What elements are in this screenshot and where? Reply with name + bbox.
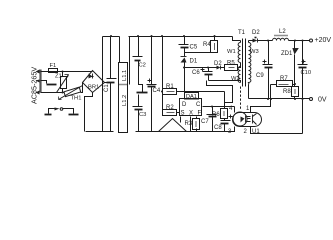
wire C pin to opto [203, 106, 235, 108]
wire x162 [162, 37, 164, 113]
capacitor C9 electrolytic [268, 41, 270, 65]
svg-text:W2: W2 [231, 76, 240, 82]
plug symbol [49, 109, 55, 114]
capacitor C10 [302, 41, 304, 65]
wire bridge bottom to ground rail [85, 93, 93, 132]
wire opto pin1 to R7 [251, 85, 271, 113]
resistor R1 [163, 89, 177, 95]
wire to bridge top [57, 71, 93, 73]
svg-text:R3: R3 [185, 121, 193, 127]
svg-text:L2: L2 [279, 29, 286, 35]
transformer core [243, 39, 246, 87]
opto pin stubs [234, 107, 236, 113]
svg-text:1: 1 [246, 106, 250, 112]
svg-text:2: 2 [244, 129, 248, 135]
isolation dashed line [240, 87, 242, 111]
snubber capacitor C5 [184, 37, 186, 45]
svg-text:C7: C7 [201, 119, 209, 125]
terminal +20V [310, 39, 313, 42]
capacitor C7 [212, 107, 214, 115]
svg-text:+20V: +20V [315, 37, 332, 44]
wire W2 return [209, 81, 241, 83]
svg-text:D2: D2 [214, 61, 222, 67]
wire L input arrow [41, 71, 49, 73]
0V bus [249, 98, 310, 100]
winding W1 [240, 41, 242, 43]
svg-text:R4: R4 [203, 42, 211, 48]
svg-text:R8: R8 [283, 89, 291, 95]
secondary return wire [248, 85, 250, 99]
diode D2 primary [217, 66, 221, 70]
svg-text:C3: C3 [139, 112, 146, 118]
secondary top wire [249, 40, 253, 42]
svg-text:ZD1: ZD1 [281, 51, 293, 57]
wire bridge right output [105, 82, 111, 84]
svg-text:C8: C8 [214, 125, 222, 131]
wire X pin [190, 117, 192, 132]
zener ZD1 [294, 41, 296, 49]
svg-text:U1: U1 [252, 129, 260, 135]
choke L1 box [119, 37, 121, 63]
resistor R3 [196, 117, 198, 119]
svg-text:D: D [182, 102, 187, 108]
capacitor C8 electrolytic [224, 119, 226, 121]
resistor R6 [221, 109, 228, 119]
resistor R8 [292, 87, 299, 97]
svg-text:C9: C9 [256, 73, 264, 79]
svg-text:R2: R2 [166, 105, 174, 111]
snubber diode D1 [184, 48, 186, 57]
capacitor C3 [138, 95, 140, 107]
wire vertical x103 [102, 37, 104, 132]
svg-text:C10: C10 [301, 70, 312, 76]
primary ground rail [86, 131, 114, 133]
optocoupler U1 [233, 113, 262, 127]
svg-text:L1.1: L1.1 [122, 70, 128, 81]
svg-text:F: F [198, 111, 202, 117]
resistor R2 [162, 112, 164, 114]
capacitor C2 [138, 37, 140, 57]
svg-text:C6: C6 [192, 70, 200, 76]
svg-text:C1: C1 [104, 84, 110, 92]
wire N input arrow [41, 81, 47, 84]
terminal 0V [310, 98, 313, 101]
svg-text:R5: R5 [227, 61, 235, 67]
svg-text:T1: T1 [238, 30, 246, 36]
svg-text:W1: W1 [227, 49, 236, 55]
svg-text:R1: R1 [166, 84, 174, 90]
svg-text:TH1: TH1 [71, 96, 82, 102]
winding W2 [238, 67, 240, 83]
fuse F1 [49, 69, 58, 73]
svg-text:C2: C2 [139, 63, 146, 69]
svg-text:C4: C4 [153, 88, 161, 94]
capacitor C1 [110, 37, 112, 79]
resistor R4 [214, 37, 216, 41]
wire third input arrow [41, 92, 65, 94]
svg-text:0V: 0V [318, 97, 327, 104]
wire opto pin2 loop [251, 127, 303, 134]
IC DA1 [180, 99, 202, 116]
svg-text:F1: F1 [50, 63, 57, 69]
svg-text:R7: R7 [280, 76, 288, 82]
winding W3 [248, 41, 250, 43]
svg-text:BR1: BR1 [88, 85, 99, 91]
svg-text:C5: C5 [190, 45, 198, 51]
resistor R5 [225, 65, 238, 71]
thermistor TH1 [64, 87, 81, 96]
top DC rail right segment [129, 36, 233, 38]
svg-text:L1.2: L1.2 [122, 95, 128, 106]
svg-text:C: C [196, 102, 201, 108]
svg-text:S: S [181, 111, 185, 117]
capacitor C6 [208, 68, 210, 72]
capacitor C4 electrolytic [151, 37, 153, 85]
svg-text:X: X [189, 111, 193, 117]
svg-text:D2: D2 [252, 30, 260, 36]
ground triangle primary [159, 119, 187, 132]
svg-text:DA1: DA1 [186, 94, 197, 100]
bridge rectifier BR1 [83, 71, 105, 93]
svg-text:W3: W3 [250, 49, 259, 55]
drain staircase wires [207, 81, 233, 103]
bias wire with D2 R5 [185, 67, 217, 69]
svg-text:D1: D1 [190, 59, 198, 65]
resistor R7 [271, 84, 277, 86]
input connector bar [39, 70, 41, 93]
top DC rail left segment [103, 36, 120, 38]
